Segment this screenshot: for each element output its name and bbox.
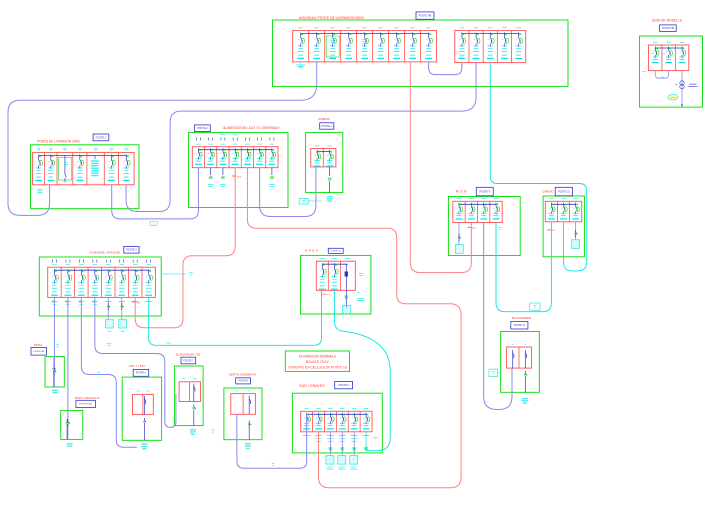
svg-text:POSTE 11: POSTE 11	[514, 324, 526, 327]
svg-text:GYMNASE / PISCINE: GYMNASE / PISCINE	[89, 250, 119, 254]
svg-text:CARDIO: CARDIO	[542, 190, 554, 194]
svg-text:PATIA: PATIA	[34, 343, 42, 347]
svg-text:M. S. B: M. S. B	[456, 190, 466, 194]
svg-text:POSTE 8: POSTE 8	[238, 381, 248, 383]
svg-text:POSTE 4: POSTE 4	[321, 125, 332, 128]
svg-text:POSTE HB: POSTE HB	[662, 27, 674, 30]
svg-text:POSTE 10: POSTE 10	[558, 190, 570, 193]
svg-text:BLANCHERIE: BLANCHERIE	[512, 316, 531, 320]
svg-text:ART 7 / KIN: ART 7 / KIN	[129, 364, 145, 368]
svg-text:+E06==: +E06==	[321, 294, 329, 296]
svg-text:OUVERTE EN CELLULE 5V POSTE 10: OUVERTE EN CELLULE 5V POSTE 10	[288, 366, 347, 370]
svg-text:POSTE 7: POSTE 7	[183, 359, 194, 362]
svg-text:POSTE 4B: POSTE 4B	[33, 351, 44, 353]
svg-text:ALIMENTATION / AUT / S. GENERA: ALIMENTATION / AUT / S. GENERAUX	[223, 126, 280, 130]
svg-text:ELEVATEUR / ML: ELEVATEUR / ML	[176, 352, 200, 356]
svg-text:POSTE 5: POSTE 5	[338, 384, 349, 387]
svg-text:SUD / GRAVES: SUD / GRAVES	[299, 384, 325, 388]
svg-text:TRAIT. DES EAUX: TRAIT. DES EAUX	[74, 396, 99, 400]
svg-text:M. P. B. S: M. P. B. S	[305, 248, 318, 252]
svg-text:POSTE 6: POSTE 6	[136, 372, 147, 375]
svg-text:POSTE 3: POSTE 3	[126, 249, 137, 252]
svg-text:POSTE 5 BIS: POSTE 5 BIS	[79, 404, 92, 406]
svg-text:POSTE 2: POSTE 2	[197, 127, 208, 130]
svg-text:POSTE HB: POSTE HB	[419, 14, 432, 17]
svg-text:POSTE 12: POSTE 12	[331, 251, 342, 253]
svg-text:DEPTS GENERAUX: DEPTS GENERAUX	[229, 372, 257, 376]
svg-text:QUAI DE MOSELLE: QUAI DE MOSELLE	[652, 18, 683, 22]
svg-text:NOUVEAU POSTE DE LIVRAISON 20K: NOUVEAU POSTE DE LIVRAISON 20KV	[299, 16, 365, 20]
svg-text:POSTE DE LIVRAISON 20KV: POSTE DE LIVRAISON 20KV	[37, 140, 81, 144]
svg-text:EN MARCHE NORMALE: EN MARCHE NORMALE	[299, 355, 337, 359]
svg-text:POSTE 1: POSTE 1	[96, 136, 107, 139]
svg-text:POSTE 9: POSTE 9	[479, 190, 490, 193]
svg-text:PHENIX: PHENIX	[318, 117, 329, 121]
svg-text:BOUCLE 20 KV: BOUCLE 20 KV	[306, 360, 330, 364]
